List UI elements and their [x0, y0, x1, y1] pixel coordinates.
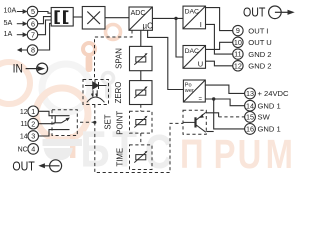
optocoupler box: [83, 80, 109, 105]
svg-text:U: U: [198, 60, 203, 69]
wire ADC bottom to power: [148, 30, 184, 89]
wire transistor collector jog to SW: [206, 113, 218, 117]
svg-text:TIME: TIME: [115, 148, 124, 167]
junction dots: [93, 17, 215, 124]
relay wire terminal3: [38, 130, 69, 136]
wire gnd rail to terminal 16: [214, 99, 245, 129]
svg-text:12: 12: [234, 61, 242, 70]
right terminal labels: [248, 26, 289, 133]
relay contact arm: [61, 118, 68, 123]
watermark ring orange small top: [106, 25, 121, 40]
svg-text:DAC: DAC: [185, 9, 199, 16]
watermark logo: [0, 25, 293, 180]
svg-text:16: 16: [246, 125, 254, 134]
svg-text:1: 1: [31, 107, 35, 116]
wire ADC to SPAN: [140, 30, 142, 46]
wire DAC I to terminal 9: [206, 8, 233, 31]
svg-text:12: 12: [20, 109, 28, 116]
watermark ring orange left edge: [0, 62, 30, 104]
watermark ring gray: [42, 64, 90, 112]
trimmer SET POINT: [134, 116, 147, 128]
terminal 16: [245, 123, 256, 134]
watermark gray band: [43, 139, 83, 146]
svg-text:2: 2: [31, 119, 35, 128]
svg-text:8: 8: [31, 46, 35, 55]
terminal 6: [27, 19, 37, 29]
svg-text:П: П: [180, 130, 204, 176]
optocoupler LED and phototransistor: [85, 80, 107, 103]
svg-text:ADC: ADC: [131, 10, 146, 17]
wire transistor emitter to gnd rail: [206, 131, 213, 133]
svg-text:IN: IN: [13, 63, 23, 76]
watermark letters orange: [180, 130, 293, 176]
svg-text:3: 3: [31, 132, 35, 141]
relay box: [52, 110, 77, 136]
svg-text:10A: 10A: [4, 6, 17, 15]
svg-text:SW: SW: [258, 113, 271, 122]
svg-text:GND 1: GND 1: [258, 125, 281, 134]
input terminals: [27, 6, 255, 154]
svg-text:+ 24VDC: + 24VDC: [258, 89, 290, 98]
svg-text:DAC: DAC: [185, 48, 199, 55]
svg-text:SPAN: SPAN: [115, 48, 124, 69]
wire DAC U to terminal 10: [206, 42, 233, 49]
svg-text:Р: Р: [214, 130, 236, 176]
node gnd junction: [212, 97, 215, 100]
svg-text:13: 13: [246, 89, 254, 98]
svg-text:ZERO: ZERO: [114, 82, 123, 104]
svg-text:С: С: [145, 126, 173, 178]
SPAN trimmer box: [130, 46, 153, 70]
terminal 2: [28, 118, 39, 129]
wire terminal8 to transformer: [38, 23, 52, 50]
IN label and probe icon: [13, 63, 48, 76]
svg-text:OUT I: OUT I: [248, 26, 268, 35]
TIME trimmer box: [130, 145, 153, 170]
svg-text:NC: NC: [18, 146, 28, 153]
svg-text:10: 10: [234, 38, 242, 47]
wire terminal7 to transformer: [38, 20, 52, 35]
dashed wire ADC to optocoupler: [95, 30, 133, 79]
node relay control junction: [93, 121, 96, 124]
terminal 5: [27, 6, 37, 16]
node bus junction: [174, 17, 177, 20]
terminal 12: [233, 61, 243, 71]
svg-text:=: =: [199, 97, 203, 103]
svg-text:15: 15: [246, 113, 254, 122]
svg-text:µC: µC: [143, 21, 154, 30]
svg-text:POINT: POINT: [115, 111, 124, 135]
trimmer ZERO: [134, 86, 147, 98]
svg-text:9: 9: [236, 26, 240, 35]
wire transformer to multiplier: [73, 16, 82, 18]
terminal 9: [233, 25, 243, 35]
svg-text:OUT: OUT: [243, 6, 265, 20]
watermark letters gray: [80, 120, 172, 179]
svg-text:5: 5: [31, 7, 35, 16]
svg-text:GND 2: GND 2: [248, 50, 271, 59]
transformer core symbol: [55, 10, 69, 24]
dashed wire junction to relay box: [77, 121, 95, 123]
terminal 13: [245, 88, 256, 99]
block labels: [131, 9, 204, 103]
terminal 8: [27, 45, 37, 55]
terminal 1: [28, 106, 39, 117]
dashed wires: [52, 30, 245, 172]
watermark gray bowl: [44, 148, 73, 161]
transistor Q1: [183, 112, 206, 132]
svg-text:I: I: [200, 20, 202, 29]
trimmer TIME: [134, 151, 147, 163]
wire bus to DAC U: [176, 18, 183, 57]
watermark pin gray: [103, 73, 114, 84]
POINT trimmer box: [130, 111, 153, 133]
svg-text:U: U: [238, 130, 262, 176]
svg-text:7: 7: [31, 30, 35, 39]
transistor box: [183, 110, 206, 134]
dashed wire POINT to TIME: [140, 133, 142, 145]
svg-text:14: 14: [246, 101, 254, 110]
relay terminal labels: [18, 109, 28, 154]
trimmer SPAN: [134, 53, 147, 65]
wire ADC to DAC I: [152, 17, 183, 19]
terminal 4: [28, 144, 39, 155]
terminal 3: [28, 131, 39, 142]
wire power to terminal 14: [205, 99, 244, 106]
watermark ring orange main: [36, 88, 88, 140]
relay wire terminal2: [38, 122, 61, 125]
arrow into terminal 7: [17, 34, 24, 36]
svg-text:1A: 1A: [4, 29, 13, 38]
terminal numbers: [31, 7, 254, 153]
wire terminal6 to transformer: [38, 17, 52, 24]
svg-text:11: 11: [20, 121, 27, 128]
arrow out of terminal 8: [21, 49, 28, 51]
relay wire terminal1: [38, 111, 69, 115]
dashed wire optocoupler to relay junction: [94, 105, 96, 123]
transformer T1 box: [51, 8, 73, 27]
svg-text:OUT: OUT: [12, 160, 34, 174]
multiplier box: [82, 7, 105, 30]
terminal 14: [245, 100, 256, 111]
terminal 7: [27, 30, 37, 40]
svg-text:SET: SET: [104, 114, 113, 129]
terminal 15: [245, 112, 256, 123]
wire SPAN to ZERO: [140, 71, 142, 81]
input range labels: [4, 6, 17, 38]
wire multiplier to ADC: [105, 17, 129, 19]
dashed wire to terminal 15: [219, 116, 245, 118]
svg-text:5A: 5A: [4, 18, 13, 27]
wire DAC I to terminal 11: [206, 24, 233, 54]
svg-text:6: 6: [31, 19, 35, 28]
power supply box U4: [183, 80, 205, 102]
dashed loop to transistor base: [95, 122, 183, 172]
dashed wire ZERO to POINT: [140, 105, 142, 112]
watermark stem orange: [70, 134, 75, 158]
DAC U box U3: [183, 46, 206, 69]
svg-text:4: 4: [31, 145, 35, 154]
watermark pin orange: [83, 43, 95, 55]
wire DAC U to terminal 12: [206, 61, 233, 66]
svg-text:11: 11: [234, 50, 241, 59]
OUT top label and icon: [243, 6, 295, 20]
rotated trimmer labels: [104, 48, 125, 166]
svg-text:GND 1: GND 1: [258, 102, 281, 111]
DAC I box U2: [183, 6, 206, 29]
svg-text:14: 14: [20, 134, 28, 141]
svg-text:wer: wer: [184, 88, 194, 94]
svg-text:М: М: [266, 130, 293, 176]
svg-text:GND 2: GND 2: [248, 62, 271, 71]
wire power to terminal 13: [205, 85, 244, 93]
terminal 10: [233, 37, 243, 47]
ZERO trimmer box: [130, 81, 153, 105]
arrow into terminal 6: [17, 23, 24, 25]
OUT bottom label and icon: [12, 160, 61, 174]
ADC/uC box U1: [129, 7, 152, 30]
input arrows: [17, 9, 28, 52]
relay contact left bar: [54, 116, 56, 123]
svg-text:OUT U: OUT U: [248, 38, 271, 47]
arrow into terminal 5: [17, 11, 24, 13]
terminal 11: [233, 49, 243, 59]
wire terminal5 to transformer: [38, 12, 52, 14]
